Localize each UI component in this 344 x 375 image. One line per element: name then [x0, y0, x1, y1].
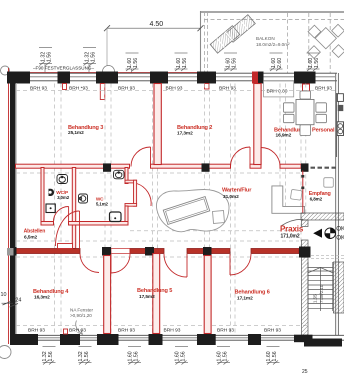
divider wall mid bottom	[153, 254, 160, 334]
svg-text:1.56: 1.56	[47, 52, 53, 62]
bottom wall right extension	[304, 339, 342, 347]
bottom wall pier 3	[97, 334, 119, 345]
kitchen sink	[337, 94, 343, 102]
corridor top wall segment 1	[16, 164, 130, 168]
svg-text:NA Fenster: NA Fenster	[70, 308, 93, 313]
vertical dashed grid pair F	[279, 84, 281, 214]
corridor wall segment 5 short	[111, 249, 130, 254]
corridor bottom wall segment 2	[130, 249, 164, 254]
dining chair right 2	[316, 114, 327, 122]
Empfang desk L-shape	[272, 186, 305, 213]
svg-text:4.50: 4.50	[150, 21, 164, 28]
hatched neighbour wall right	[333, 262, 344, 313]
svg-text:1.56: 1.56	[91, 52, 97, 62]
dining chair right 1	[316, 103, 327, 112]
bottom wall pier 5	[197, 334, 216, 345]
horizontal dashed grid line below corridor wall	[16, 256, 299, 258]
corridor bottom wall pier c	[203, 247, 212, 256]
horizontal dashed grid line above bottom wall	[16, 325, 310, 327]
WC east wall lower	[125, 206, 128, 223]
bottom wall pier 2	[60, 334, 80, 345]
fire rating red line along left wall	[8, 68, 10, 344]
svg-text:BRH 93: BRH 93	[69, 328, 86, 334]
door arc room 2 bottom	[111, 254, 130, 273]
hatched existing wall horizontal	[301, 213, 344, 220]
svg-text:1.56: 1.56	[48, 351, 54, 361]
svg-text:10: 10	[1, 292, 7, 298]
svg-text:1.56: 1.56	[84, 351, 90, 361]
balcony table (diamond)	[315, 28, 336, 49]
dining chair top	[300, 91, 311, 99]
rotated window dimension labels below bottom wall	[42, 351, 278, 361]
NA Fenster leader	[76, 321, 82, 334]
svg-text:7.08/2.10: 7.08/2.10	[319, 284, 324, 303]
hatched existing wall vertical	[302, 257, 309, 335]
balcony chair SW	[308, 46, 321, 59]
bottom wall outer line	[10, 339, 344, 341]
svg-text:1.56: 1.56	[272, 351, 278, 361]
red stub column below pier3	[100, 84, 105, 100]
corridor top wall segment 4	[280, 164, 301, 168]
svg-text:1.55: 1.55	[313, 294, 318, 303]
rotated window dimension labels above top wall	[41, 52, 321, 68]
top wall pier 5	[197, 72, 216, 84]
WC door arc	[137, 184, 151, 207]
WC niche top wall	[125, 180, 137, 183]
Abstellen niche	[58, 244, 73, 249]
svg-text:3,0m2: 3,0m2	[57, 195, 70, 200]
svg-text:17,3m2: 17,3m2	[177, 131, 193, 137]
svg-text:18.0m2/2=9.0m²: 18.0m2/2=9.0m²	[256, 42, 290, 47]
corridor top wall pier mid	[202, 163, 210, 171]
svg-text:BRH 0.00: BRH 0.00	[267, 89, 288, 95]
divider wall Beh5|Beh6	[204, 256, 211, 334]
lounger 2 (balcony)	[210, 26, 240, 53]
right wall line outer	[335, 73, 337, 335]
semicircle column symbol on pier	[103, 66, 115, 72]
Praxis entry door arc	[281, 219, 303, 226]
svg-text:16,9m2: 16,9m2	[276, 133, 292, 139]
svg-text:6,8m2: 6,8m2	[310, 197, 323, 202]
svg-text:OK: OK	[336, 235, 344, 242]
top wall pier 6	[258, 72, 264, 84]
bottom wall pier 4	[149, 334, 163, 345]
svg-text:BRH 93: BRH 93	[28, 328, 45, 334]
sink WC	[110, 212, 122, 222]
stove burner 1	[338, 124, 343, 129]
svg-text:Behandlung 4: Behandlung 4	[33, 289, 69, 295]
red stub column below pier5	[205, 84, 210, 90]
left exterior wall	[10, 73, 16, 345]
kitchen stove box	[337, 122, 343, 136]
top wall outer line	[7, 72, 337, 74]
horizontal dashed line right corridor	[311, 255, 344, 257]
door arc Behandlung 3	[131, 147, 151, 167]
corridor bottom wall segment 3	[187, 249, 230, 254]
svg-text:25,1m2: 25,1m2	[68, 130, 84, 136]
corridor bottom wall pier d (praxis entry)	[299, 247, 311, 258]
balcony inner dashed verticals	[287, 13, 289, 73]
kitchen dark block	[338, 105, 344, 111]
stair boundary lines	[307, 262, 309, 311]
svg-text:Warten/Flur: Warten/Flur	[222, 188, 252, 194]
svg-text:2.60: 2.60	[277, 58, 283, 68]
door arc Behandlung 7	[261, 148, 280, 167]
corridor top wall segment 3	[250, 164, 261, 168]
balcony top solid edge	[201, 11, 344, 13]
svg-text:BRH *93: BRH *93	[69, 86, 88, 92]
dimension 4.50 line	[107, 27, 201, 29]
red stub above bottom pier2	[64, 329, 68, 334]
svg-text:Abstellen: Abstellen	[24, 228, 46, 234]
praxis east partition line	[302, 171, 304, 214]
svg-text:1.56: 1.56	[314, 58, 320, 68]
balcony left solid edge	[200, 11, 202, 73]
svg-text:6,5m2: 6,5m2	[24, 234, 38, 240]
left dim ticks	[3, 302, 11, 306]
WC/P door arc	[53, 207, 68, 223]
dimension 4.50 witness line	[106, 28, 108, 71]
svg-text:Behandlung 3: Behandlung 3	[68, 125, 103, 131]
svg-text:31,0m2: 31,0m2	[223, 194, 239, 200]
divider wall Beh4|Beh5	[104, 256, 111, 334]
Abstellen door arc	[56, 211, 80, 246]
svg-text:171,0m2: 171,0m2	[281, 234, 300, 240]
top wall pier 7	[294, 72, 316, 84]
bidet WC	[79, 194, 88, 203]
BRH labels above bottom windows	[28, 328, 281, 334]
svg-text:Behandlung 2: Behandlung 2	[177, 125, 212, 131]
door arc room 3 bottom	[164, 254, 187, 277]
corridor bottom wall segment 1	[16, 249, 81, 254]
axis circle bottom left	[0, 346, 11, 359]
WC east wall upper	[125, 168, 128, 184]
balcony left dashed pair	[204, 12, 206, 73]
axis circle top left	[1, 66, 10, 75]
WC/P west wall	[41, 168, 44, 226]
vertical dashed grid pair D	[204, 84, 206, 335]
BRH labels below top windows	[30, 86, 332, 95]
svg-text:1.56: 1.56	[223, 351, 229, 361]
red stub column below pier2	[63, 84, 67, 90]
Empfang north existing wall dashed	[311, 167, 337, 169]
svg-text:BRH 93: BRH 93	[118, 328, 135, 334]
Empfang chair 1	[290, 189, 302, 200]
horizontal dashed grid line below flur top wall	[16, 172, 300, 174]
Warten blob sofa	[157, 190, 230, 232]
svg-text:BRH 93: BRH 93	[217, 328, 234, 334]
door arc Behandlung 6	[230, 254, 251, 275]
door arc Behandlung 2	[231, 147, 251, 167]
corridor bottom wall segment 4	[251, 249, 299, 254]
corridor bottom wall left pier	[10, 247, 17, 256]
svg-text:BRH 93: BRH 93	[118, 86, 135, 92]
dining chair bottom	[300, 125, 311, 135]
bottom wall pier 7 corner right	[294, 335, 313, 343]
top wall inner line	[7, 80, 337, 82]
bottom wall inner line	[10, 334, 344, 336]
left wall inner face line	[15, 83, 17, 334]
svg-text:BRH 93: BRH 93	[164, 328, 181, 334]
lounger 1 (balcony)	[226, 15, 256, 42]
divider wall Beh2|Beh7	[254, 84, 261, 165]
tick marks for top dim labels	[39, 48, 320, 73]
dining table (Personal room)	[296, 100, 314, 125]
stove burner 2	[338, 129, 343, 134]
svg-text:24: 24	[15, 298, 21, 304]
toilet WC/P	[57, 175, 68, 184]
svg-text:OK: OK	[336, 226, 344, 233]
svg-text:1.56: 1.56	[181, 351, 187, 361]
hatched existing wall vertical upper	[302, 220, 309, 227]
svg-text:–F90 FESTVERGLASSUNG–: –F90 FESTVERGLASSUNG–	[33, 66, 94, 71]
sink WC/P	[46, 204, 55, 213]
bottom wall glazing line	[15, 337, 310, 339]
door arc Behandlung 4	[80, 254, 99, 273]
kitchen counter line	[336, 93, 338, 157]
balcony chair SE	[332, 45, 344, 58]
fire rating red line along top glazing	[10, 72, 201, 74]
dining chair left 1	[284, 103, 295, 112]
svg-text:17,5m2: 17,5m2	[139, 294, 155, 300]
toilet WC top	[114, 170, 125, 179]
svg-text:Praxis: Praxis	[280, 225, 304, 234]
hatched existing wall vertical mid	[302, 240, 309, 247]
svg-text:1.56: 1.56	[133, 58, 139, 68]
svg-text:16,3m2: 16,3m2	[34, 294, 50, 300]
right wall line inner	[337, 73, 339, 335]
divider wall Beh3|Beh2	[154, 84, 161, 165]
balcony top dashed line	[204, 19, 344, 21]
top wall pier 3	[96, 72, 118, 84]
svg-text:17,1m2: 17,1m2	[237, 296, 253, 302]
balcony chair NW	[308, 25, 321, 38]
svg-text:BALKON: BALKON	[256, 36, 275, 41]
vertical dashed grid pair G	[300, 84, 302, 257]
corridor bottom wall pier a	[102, 247, 111, 256]
corridor top wall segment 2	[151, 164, 231, 168]
corridor top wall pier right	[301, 163, 309, 171]
corridor top wall pier	[103, 163, 111, 171]
tick marks for bottom dim labels	[43, 347, 280, 365]
top wall pier 1 (corner)	[7, 72, 30, 84]
balcony chair NE	[332, 24, 344, 37]
stair center line with arrow	[319, 267, 321, 311]
top wall red pier (new wall)	[252, 72, 258, 84]
urinal WC/P	[49, 189, 55, 196]
svg-text:>0,90/1,20: >0,90/1,20	[70, 313, 92, 318]
vertical dashed grid pair C	[152, 84, 154, 335]
svg-text:25: 25	[302, 369, 308, 375]
red stub column below pier7	[303, 84, 310, 91]
WC/P south wall segment	[41, 222, 54, 226]
small shaft square on left wall	[7, 248, 14, 256]
svg-text:1.56: 1.56	[182, 58, 188, 68]
vertical dashed grid pair A	[54, 84, 56, 335]
horizontal dashed grid line below top wall	[16, 90, 335, 92]
horizontal dashed grid line above corridor wall	[16, 240, 299, 242]
WC south wall	[69, 222, 129, 226]
Empfang chair 2	[324, 178, 334, 188]
top wall glazing line	[10, 76, 335, 78]
dining chair left 2	[284, 114, 295, 122]
WC/P | WC wall and Abstellen east wall	[72, 168, 75, 249]
balcony door niche	[264, 81, 294, 97]
bottom wall pier 1 (corner)	[10, 334, 38, 345]
top wall pier 2	[58, 72, 71, 84]
Warten side table	[212, 211, 224, 224]
stair treads	[308, 271, 333, 308]
top wall pier 4	[150, 72, 168, 84]
svg-text:Behandlung 6: Behandlung 6	[235, 290, 270, 296]
bottom wall pier 6	[248, 334, 261, 345]
horizontal dashed grid line flur	[130, 230, 300, 232]
svg-text:5,1m2: 5,1m2	[96, 202, 109, 207]
svg-text:Behandlung 5: Behandlung 5	[137, 288, 172, 294]
svg-text:BRH 93: BRH 93	[264, 328, 281, 334]
WC niche east wall	[134, 180, 137, 206]
Warten table rotated	[163, 197, 209, 225]
vertical dashed grid pair B	[104, 84, 106, 335]
level marker triangle	[313, 229, 322, 238]
level marker circle	[325, 228, 336, 239]
WC niche bottom wall	[125, 204, 137, 207]
vertical dashed grid pair E	[230, 84, 232, 335]
corridor bottom wall pier b	[145, 247, 154, 256]
svg-text:1.56: 1.56	[134, 351, 140, 361]
svg-text:1.56: 1.56	[232, 58, 238, 68]
